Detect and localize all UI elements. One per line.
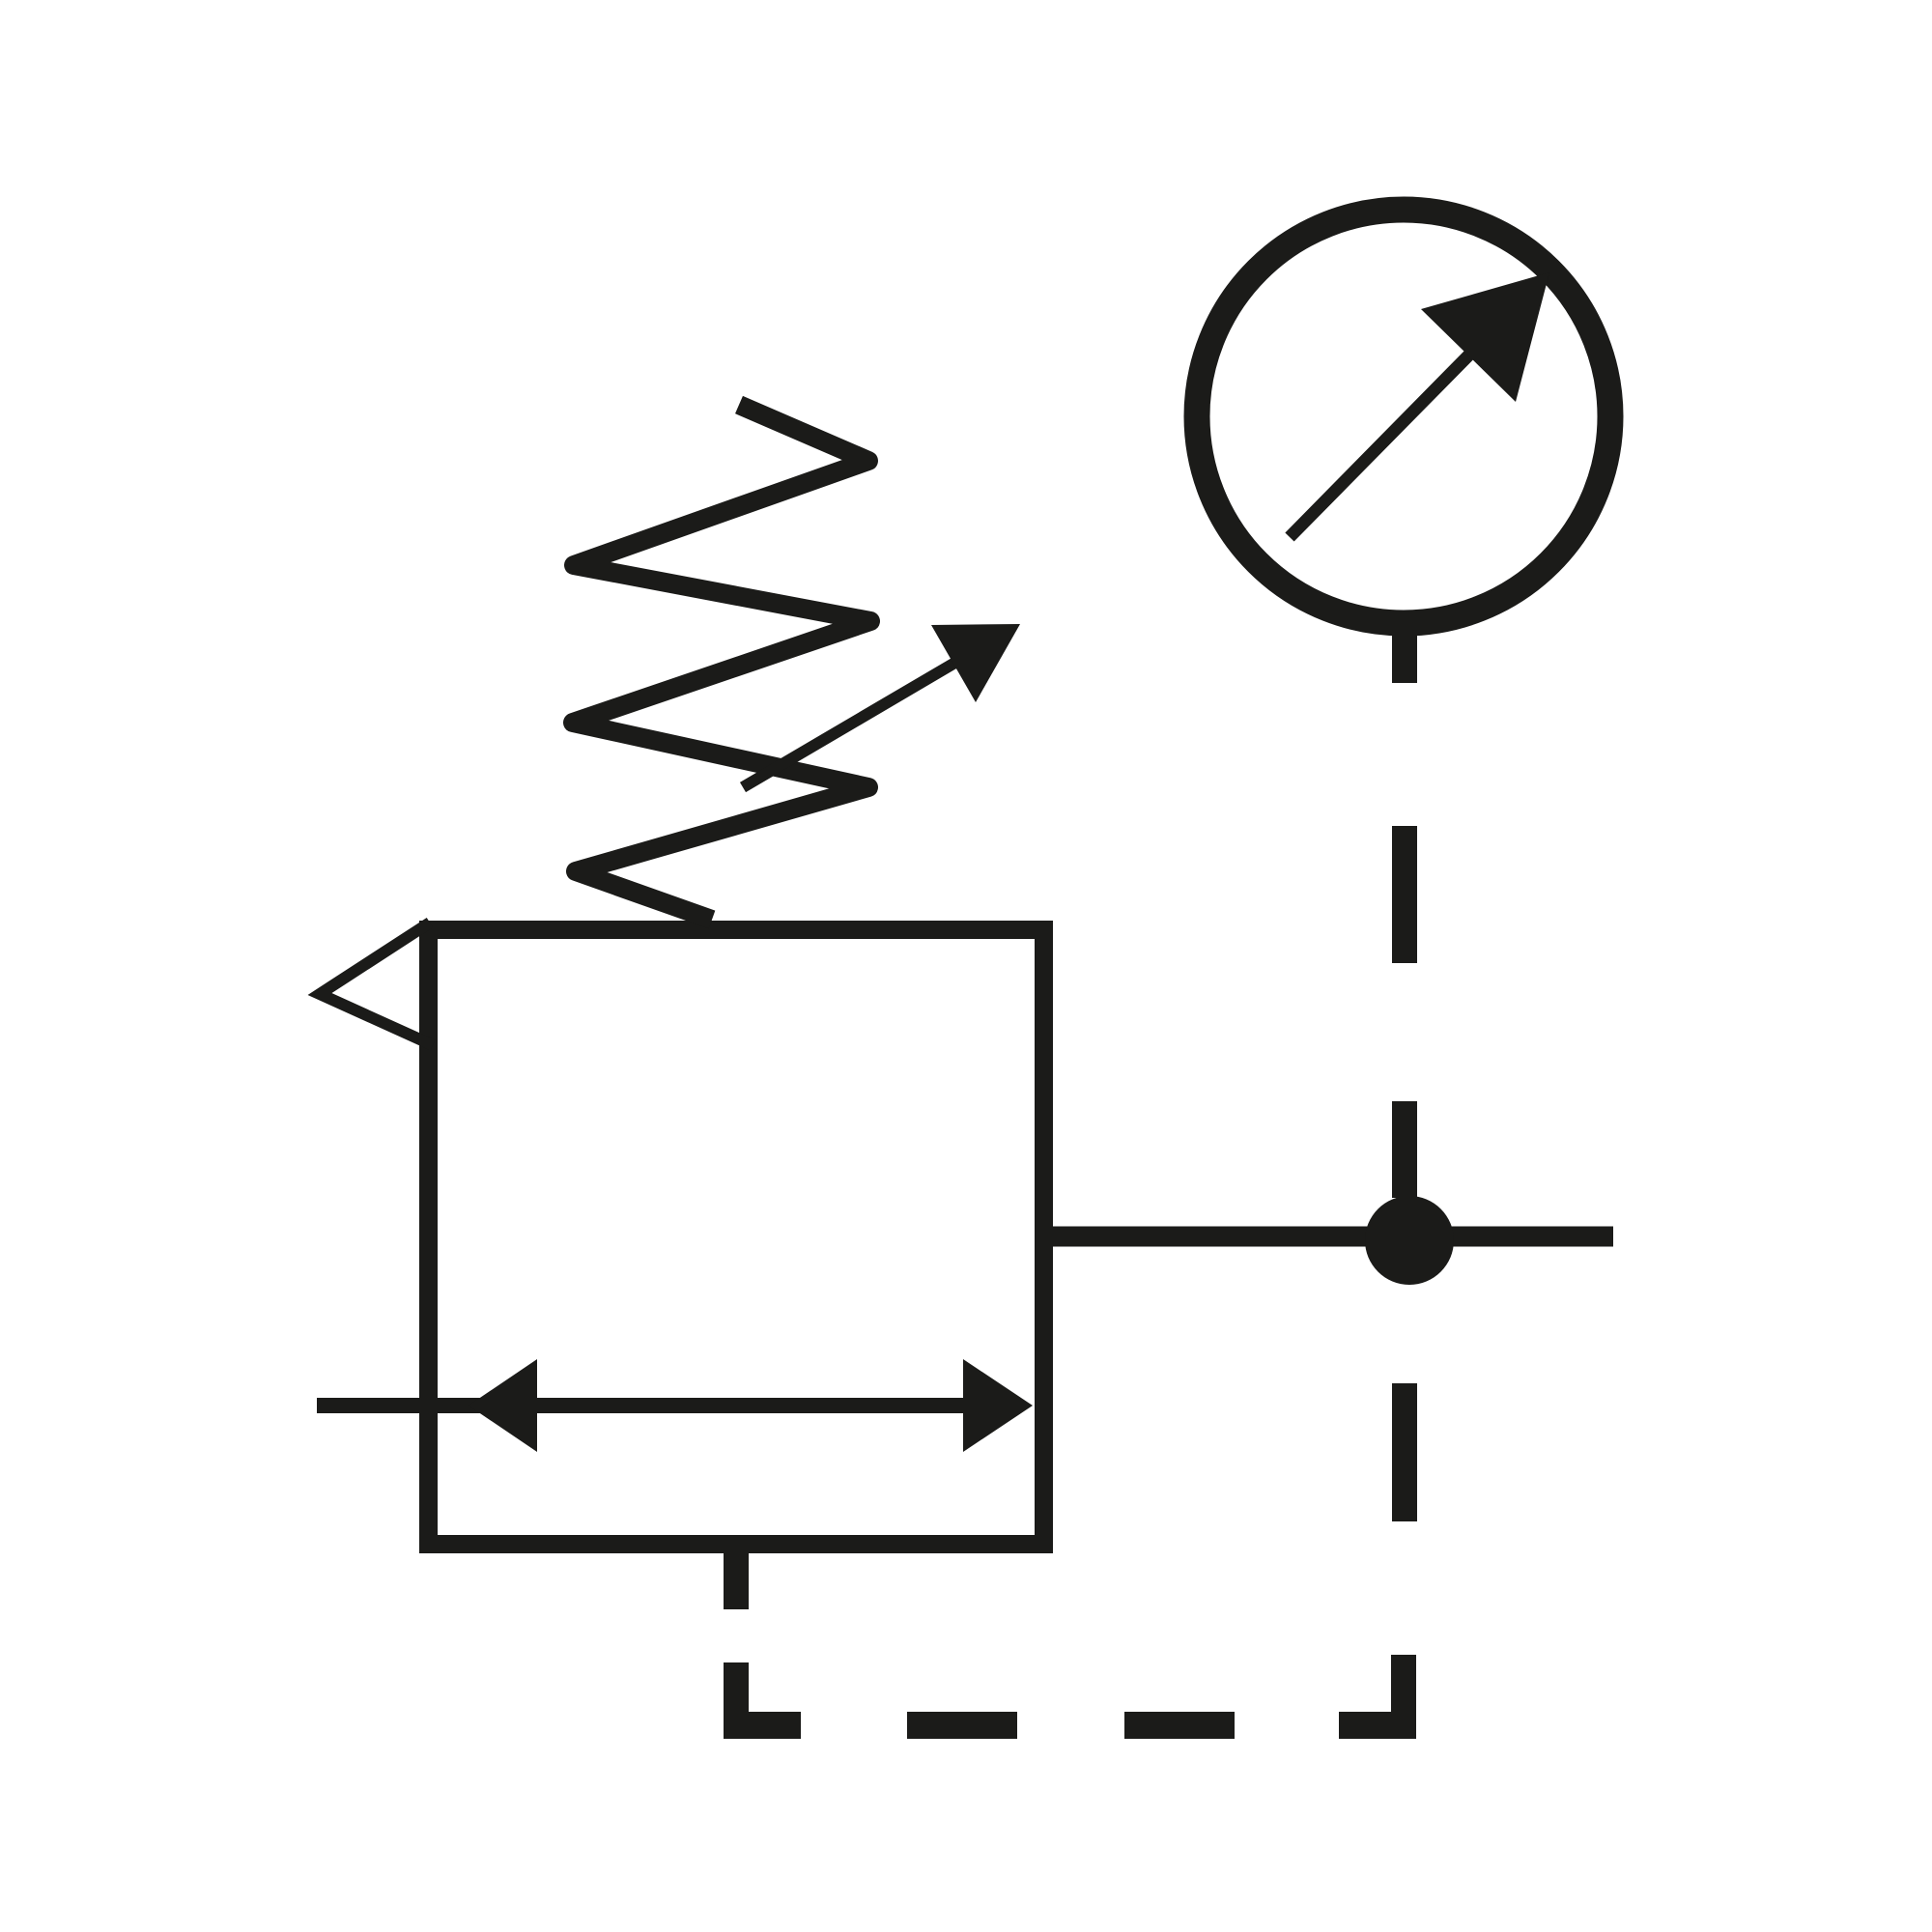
junction node (dot) [1365,1196,1454,1285]
adjustment arrow shaft [743,661,958,787]
valve body (pressure regulator) [429,930,1044,1545]
pilot line left corner dash (L shape) [724,1662,801,1739]
pilot line vertical dash 3 (below node) [1392,1383,1417,1521]
inlet stub wire (left, through body wall) [317,1398,966,1413]
gauge needle head [1421,272,1549,402]
pressure gauge circle [1197,210,1610,623]
flow arrow right head [963,1359,1033,1452]
pilot line right corner dash (L shape) [1339,1655,1416,1739]
spring (pressure setting) [573,405,870,920]
bottom pilot line dash 2 [1124,1712,1235,1739]
outlet wire (right of body) [1044,1227,1613,1247]
adjustment arrow head [931,624,1020,702]
bottom pilot line dash 1 [907,1712,1017,1739]
gauge needle shaft [1290,346,1478,537]
pilot line vertical dash 1 [1392,826,1417,963]
gauge stem dash [1392,621,1417,683]
sensing stub below valve body [724,1545,749,1609]
pilot line vertical dash 2 (into node) [1392,1101,1417,1198]
vent (relief) triangle at top-left [320,923,433,1045]
flow arrow left head [469,1359,537,1452]
